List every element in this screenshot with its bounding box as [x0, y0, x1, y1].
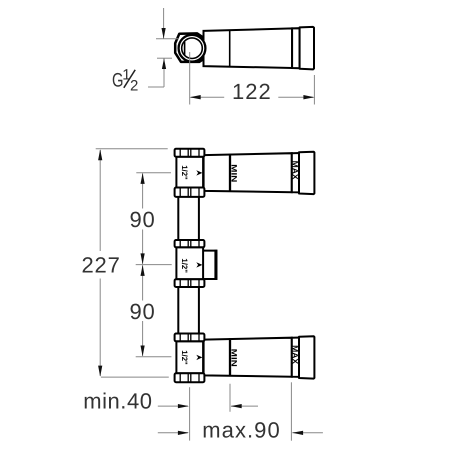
svg-text:min.40: min.40 [83, 388, 152, 413]
svg-text:MIN: MIN [230, 349, 239, 367]
svg-text:1/2": 1/2" [180, 165, 189, 180]
svg-text:MAX: MAX [291, 161, 300, 181]
svg-text:1/2": 1/2" [180, 258, 189, 273]
svg-text:90: 90 [130, 299, 156, 324]
svg-text:1/2": 1/2" [180, 350, 189, 365]
svg-text:MIN: MIN [230, 164, 239, 182]
svg-text:max.90: max.90 [202, 418, 280, 443]
svg-text:227: 227 [82, 253, 121, 278]
svg-text:122: 122 [232, 79, 272, 104]
svg-text:90: 90 [130, 207, 156, 232]
svg-text:MAX: MAX [291, 345, 300, 365]
svg-text:2: 2 [130, 78, 138, 95]
